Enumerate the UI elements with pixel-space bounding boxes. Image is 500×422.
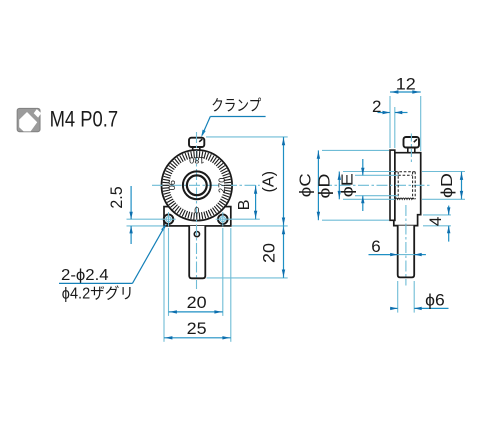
svg-text:ϕ6: ϕ6 [425, 291, 445, 310]
svg-text:ϕD: ϕD [439, 173, 456, 198]
dim 2 [394, 107, 396, 148]
clamp slot front [199, 139, 202, 142]
dim phiE [355, 174, 398, 176]
dial tick marks [163, 151, 232, 220]
svg-text:ϕC: ϕC [298, 173, 315, 197]
svg-text:(A): (A) [260, 171, 277, 193]
clamp knob front [189, 138, 204, 147]
svg-text:90: 90 [167, 180, 177, 190]
side horizontal center line [321, 184, 430, 186]
svg-text:12: 12 [396, 74, 416, 93]
svg-text:クランプ: クランプ [211, 97, 261, 115]
svg-text:0: 0 [194, 206, 199, 216]
catalog icon [17, 108, 41, 131]
svg-text:2-ϕ2.4: 2-ϕ2.4 [61, 267, 109, 284]
counterbore leader [59, 282, 132, 284]
svg-text:ϕ4.2ザグリ: ϕ4.2ザグリ [62, 284, 134, 302]
side clamp knob [404, 137, 420, 148]
side dial disc [390, 150, 395, 220]
dim phiD left [343, 171, 395, 173]
front horizontal center line [152, 184, 260, 186]
shaft cross hole [194, 232, 199, 237]
dim phiD right [422, 171, 465, 173]
dim 20 vertical [207, 277, 288, 279]
clamp leader line [210, 116, 265, 118]
svg-text:M4 P0.7: M4 P0.7 [50, 107, 119, 132]
svg-text:B: B [236, 200, 253, 211]
clamp neck front [192, 147, 194, 151]
side shaft center line [405, 205, 407, 286]
mounting hole left [161, 212, 175, 226]
body plate front [164, 207, 231, 226]
dim phiC [322, 149, 389, 151]
side thread hidden lines [395, 171, 415, 173]
svg-text:180: 180 [189, 155, 204, 165]
dim 12 [389, 96, 391, 148]
svg-text:ϕE: ϕE [340, 173, 357, 197]
dial center hole [187, 175, 207, 195]
svg-text:6: 6 [371, 237, 380, 256]
svg-text:20: 20 [260, 243, 279, 263]
dim 4 [423, 214, 451, 216]
side clamp axis center line [410, 134, 412, 163]
dim 6 [369, 254, 398, 256]
dial boss circle [183, 171, 211, 199]
shaft front [189, 226, 205, 278]
dim phi6 [397, 281, 399, 313]
side clamp slot [414, 139, 417, 142]
dim B [230, 218, 260, 220]
side shaft [398, 226, 415, 278]
svg-text:4: 4 [426, 217, 445, 226]
svg-text:ϕD: ϕD [317, 174, 334, 199]
svg-text:25: 25 [187, 319, 207, 338]
svg-text:20: 20 [187, 293, 207, 312]
side body outline [394, 153, 421, 226]
dim 2.5 [127, 218, 163, 220]
side clamp neck [407, 148, 409, 153]
mounting hole right [216, 212, 230, 226]
front vertical center line [196, 132, 198, 289]
thread incomplete wavy line [395, 198, 414, 199]
svg-text:270: 270 [217, 178, 227, 193]
dial outer circle [162, 150, 233, 221]
dim 25 [163, 228, 165, 342]
dim (A) [206, 136, 288, 138]
svg-text:2.5: 2.5 [107, 186, 126, 208]
dim 20 horizontal [168, 228, 170, 316]
svg-text:2: 2 [372, 97, 381, 116]
